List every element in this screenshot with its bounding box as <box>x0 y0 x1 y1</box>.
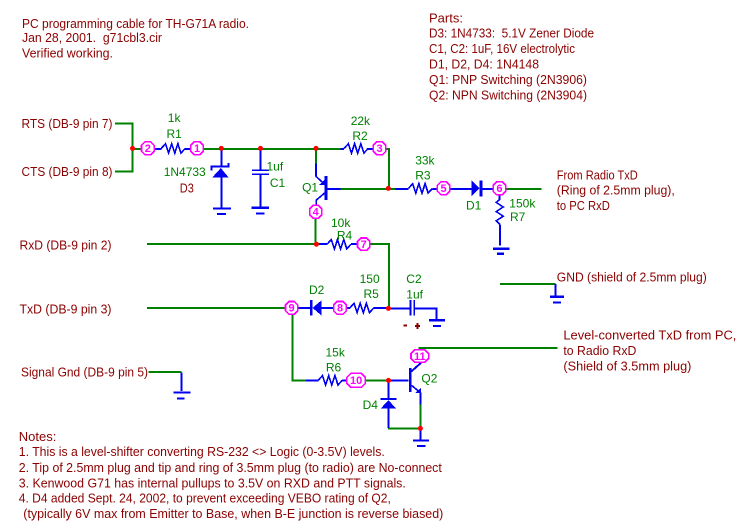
ground for C2 <box>429 320 445 326</box>
svg-text:Jan 28, 2001. g71cbl3.cir: Jan 28, 2001. g71cbl3.cir <box>22 30 163 45</box>
wire RTS-CTS vertical <box>132 123 134 173</box>
node label RxD (DB-9 pin 2) <box>20 237 112 252</box>
svg-text:CTS (DB-9 pin 8): CTS (DB-9 pin 8) <box>22 164 113 179</box>
wire node 9 down and R6 row left <box>292 314 306 380</box>
svg-text:1uf: 1uf <box>406 287 423 301</box>
ground for GND stub <box>550 284 564 303</box>
ground for C1 <box>251 208 269 214</box>
svg-text:2. Tip of 2.5mm plug and tip a: 2. Tip of 2.5mm plug and tip and ring of… <box>19 460 442 475</box>
zener diode D3 <box>164 149 230 207</box>
junction Q2 emitter/D4 <box>418 426 423 431</box>
svg-text:TxD (DB-9 pin 3): TxD (DB-9 pin 3) <box>20 301 112 316</box>
node 5 circle <box>437 182 449 195</box>
svg-text:to Radio RxD: to Radio RxD <box>563 343 636 358</box>
wire CTS lead <box>115 171 133 173</box>
wire Q1 base row <box>341 188 396 190</box>
svg-text:Level-converted TxD from PC,: Level-converted TxD from PC, <box>563 328 736 343</box>
wire node 7 corner down to R5 junction <box>370 244 389 308</box>
junction RTS/CTS <box>130 146 135 151</box>
node 7 circle <box>358 238 370 251</box>
svg-text:1N4733: 1N4733 <box>164 165 206 179</box>
wire Signal Gnd stub <box>148 371 181 373</box>
wire D4 bottom row <box>388 427 420 429</box>
wire Q1 collector to RxD junction <box>315 218 317 244</box>
node label GND (shield of 2.5mm plug) <box>557 269 707 284</box>
svg-text:R7: R7 <box>510 210 526 224</box>
wire TxD row <box>147 307 286 309</box>
svg-text:C2: C2 <box>406 272 422 286</box>
junction RxD row <box>314 242 319 247</box>
svg-text:Parts:: Parts: <box>429 10 463 25</box>
wire RTS lead <box>115 123 133 125</box>
svg-text:D1: D1 <box>466 199 482 213</box>
junction Q1 base <box>386 186 391 191</box>
title text block <box>22 16 249 61</box>
ground for Q2/D4 <box>413 429 429 446</box>
wire junction to node 2 <box>133 148 142 150</box>
node 6 circle <box>493 182 505 195</box>
svg-text:D4: D4 <box>363 398 379 412</box>
node 9 circle <box>286 302 298 315</box>
resistor R3 <box>396 154 438 193</box>
svg-text:4: 4 <box>313 207 320 219</box>
svg-text:1k: 1k <box>168 111 182 125</box>
svg-text:33k: 33k <box>415 154 435 168</box>
svg-text:7: 7 <box>361 239 367 251</box>
node label TxD (DB-9 pin 3) <box>20 301 112 316</box>
svg-text:3. Kenwood G71 has internal pu: 3. Kenwood G71 has internal pullups to 3… <box>19 476 406 491</box>
wire node 11 to right <box>420 348 558 351</box>
node 2 circle <box>142 142 155 155</box>
notes text block <box>19 429 444 521</box>
svg-text:Notes:: Notes: <box>19 429 57 444</box>
svg-text:Q1: Q1 <box>302 181 318 195</box>
svg-text:RxD (DB-9 pin 2): RxD (DB-9 pin 2) <box>20 237 112 252</box>
svg-text:C1, C2: 1uF, 16V electrolytic: C1, C2: 1uF, 16V electrolytic <box>429 41 575 56</box>
diode D4 <box>363 383 397 429</box>
junction R5/C2 row <box>386 306 391 311</box>
node 8 circle <box>334 302 347 315</box>
diode D1 <box>450 180 493 212</box>
svg-text:R4: R4 <box>337 228 353 242</box>
junction R6/Q2 base row <box>386 378 391 383</box>
resistor R7 <box>496 195 536 245</box>
svg-text:11: 11 <box>414 351 426 363</box>
svg-text:R6: R6 <box>326 361 342 375</box>
svg-text:Q2: NPN Switching (2N3904): Q2: NPN Switching (2N3904) <box>429 87 587 102</box>
wire GND stub <box>500 283 556 285</box>
svg-text:(Shield of 3.5mm plug): (Shield of 3.5mm plug) <box>563 358 691 373</box>
svg-text:C1: C1 <box>270 176 286 190</box>
svg-text:3: 3 <box>377 143 383 155</box>
svg-text:150k: 150k <box>509 196 536 210</box>
svg-text:15k: 15k <box>326 346 346 360</box>
transistor Q2 <box>391 362 438 404</box>
svg-text:D3: D3 <box>180 181 194 196</box>
svg-text:1uf: 1uf <box>267 160 284 174</box>
svg-text:RTS (DB-9 pin 7): RTS (DB-9 pin 7) <box>22 116 113 131</box>
diode D2 <box>298 283 334 316</box>
svg-text:R3: R3 <box>415 169 431 183</box>
svg-text:10: 10 <box>350 375 362 387</box>
svg-text:150: 150 <box>360 272 380 286</box>
svg-text:R2: R2 <box>352 129 368 143</box>
node 3 circle <box>373 142 386 155</box>
svg-text:D1, D2, D4: 1N4148: D1, D2, D4: 1N4148 <box>429 57 539 72</box>
svg-text:4. D4 added Sept. 24, 2002, to: 4. D4 added Sept. 24, 2002, to prevent e… <box>19 491 391 506</box>
resistor R4 <box>319 216 357 249</box>
node label Level-converted TxD / to Radio RxD <box>563 328 736 374</box>
node label RTS (DB-9 pin 7) <box>22 116 113 131</box>
svg-text:R5: R5 <box>364 287 380 301</box>
node 1 circle <box>191 142 204 155</box>
wire node 3 corner down to base junction <box>386 149 389 189</box>
svg-text:1. This is a level-shifter con: 1. This is a level-shifter converting RS… <box>19 444 385 459</box>
svg-text:22k: 22k <box>351 114 371 128</box>
capacitor C2 <box>391 272 437 329</box>
resistor R1 <box>154 111 191 153</box>
transistor Q1 <box>302 164 340 206</box>
junction Q1 emitter rail <box>314 146 319 151</box>
wire node 10 to junction <box>366 379 390 381</box>
svg-text:9: 9 <box>289 303 295 315</box>
wire Q2 emitter down <box>419 404 421 427</box>
svg-text:Verified working.: Verified working. <box>22 46 113 61</box>
wire node 6 to right <box>506 188 542 190</box>
svg-text:Q1: PNP Switching (2N3906): Q1: PNP Switching (2N3906) <box>429 72 587 87</box>
svg-text:From Radio TxD: From Radio TxD <box>557 168 638 183</box>
ground for D3 <box>213 208 231 214</box>
svg-text:PC programming cable for TH-G7: PC programming cable for TH-G71A radio. <box>22 16 249 31</box>
resistor R5 <box>346 272 388 313</box>
svg-text:Signal Gnd (DB-9 pin 5): Signal Gnd (DB-9 pin 5) <box>21 365 148 380</box>
node label Signal Gnd (DB-9 pin 5) <box>21 365 148 380</box>
parts list text block <box>429 10 594 102</box>
svg-text:GND (shield of 2.5mm plug): GND (shield of 2.5mm plug) <box>557 269 707 284</box>
svg-text:R1: R1 <box>167 127 183 141</box>
svg-text:2: 2 <box>145 143 151 155</box>
node 11 circle <box>411 350 429 363</box>
wire Q1 emitter top <box>315 149 317 163</box>
svg-text:D2: D2 <box>309 283 325 297</box>
svg-text:(typically 6V max from Emitter: (typically 6V max from Emitter to Base, … <box>23 506 443 521</box>
svg-text:Q2: Q2 <box>421 371 437 385</box>
node label CTS (DB-9 pin 8) <box>22 164 113 179</box>
svg-text:5: 5 <box>441 183 447 195</box>
node label From Radio TxD / to PC RxD <box>557 168 675 213</box>
svg-text:8: 8 <box>337 303 343 315</box>
svg-text:D3: 1N4733: 5.1V Zener Diode: D3: 1N4733: 5.1V Zener Diode <box>429 26 594 41</box>
resistor R2 <box>341 114 374 153</box>
svg-text:(Ring of 2.5mm plug),: (Ring of 2.5mm plug), <box>557 183 675 198</box>
junction C1 top <box>258 146 263 151</box>
ground for R7 <box>493 249 509 254</box>
svg-text:to PC RxD: to PC RxD <box>557 198 610 213</box>
node 4 circle <box>310 205 322 218</box>
ground for Signal Gnd <box>174 372 191 398</box>
wire RxD row <box>147 243 319 245</box>
junction D3 top <box>219 146 224 151</box>
node 10 circle <box>347 373 366 387</box>
capacitor C1 <box>252 149 286 207</box>
resistor R6 <box>306 346 347 385</box>
wire top rail node1 to R2 <box>203 148 340 150</box>
svg-text:6: 6 <box>496 183 502 195</box>
svg-text:1: 1 <box>194 143 200 155</box>
